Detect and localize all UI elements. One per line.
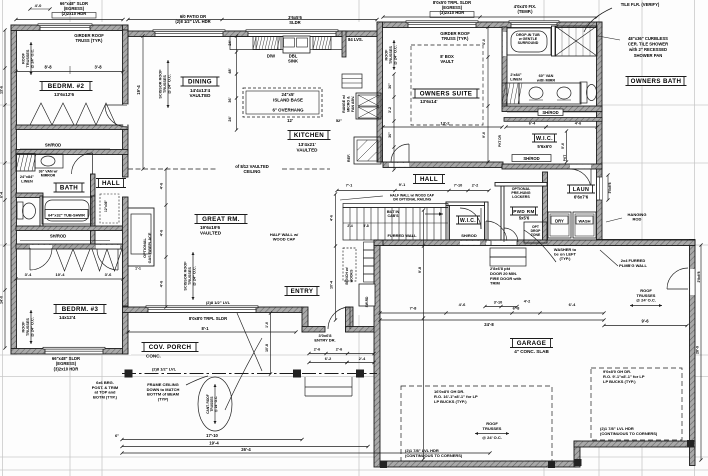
door wic1 (590, 169, 592, 190)
svg-text:2'-4: 2'-4 (359, 357, 366, 361)
garage steps (490, 248, 526, 257)
bath toilet (17, 202, 23, 219)
porch big swing (225, 338, 262, 410)
door bedroom3 (29, 248, 31, 270)
svg-text:9'-6: 9'-6 (482, 132, 486, 138)
svg-text:RANGE w/: RANGE w/ (342, 95, 346, 113)
owners suite door opening (389, 163, 409, 167)
owners suite south wall (383, 162, 503, 168)
svg-text:SH/ROD: SH/ROD (45, 143, 61, 148)
exterior wall top-middle (dining/kitchen) (128, 31, 379, 37)
bath north partial (16, 193, 43, 198)
svg-text:9'-1: 9'-1 (399, 183, 405, 187)
room label PWD RM (513, 207, 536, 215)
dryer (548, 212, 571, 238)
svg-text:SW.RD: SW.RD (365, 296, 369, 307)
dim porch 8-1 (128, 331, 296, 333)
svg-text:28'-9: 28'-9 (696, 346, 700, 354)
hall opening (96, 245, 120, 249)
dim line kitchen left (236, 36, 238, 130)
patio door 6/0 (155, 31, 223, 37)
svg-text:13'6x14': 13'6x14' (420, 99, 438, 104)
room label BATH (56, 183, 82, 192)
owners suite window 8'0x5'0 TRPL SLDR (408, 22, 476, 28)
svg-text:4'-2: 4'-2 (524, 300, 530, 304)
room label COV PORCH (144, 343, 196, 352)
garage bottom step (574, 441, 580, 467)
svg-text:(TYP.): (TYP.) (559, 256, 571, 261)
svg-text:TRIM: TRIM (490, 281, 500, 286)
dim vertical entry (335, 194, 337, 320)
pwd north wall (495, 183, 547, 187)
svg-text:@ 24' O.C.: @ 24' O.C. (482, 435, 502, 440)
tub-shower (42, 197, 92, 224)
wic south / laundry north wall (502, 164, 602, 169)
wic2 east wall (485, 202, 489, 245)
svg-text:4'-6: 4'-6 (330, 215, 334, 221)
svg-text:7'-8: 7'-8 (410, 306, 418, 311)
svg-text:FURRED WALL: FURRED WALL (387, 233, 417, 238)
washer (573, 212, 596, 238)
bedroom2 east wall (123, 30, 129, 104)
dim vertical garage left inside (423, 210, 425, 459)
svg-text:13'-6: 13'-6 (0, 86, 4, 94)
svg-text:@ 24" O.C.: @ 24" O.C. (394, 45, 398, 65)
svg-text:6'-4: 6'-4 (569, 302, 577, 307)
svg-text:SH/ROD: SH/ROD (542, 110, 558, 115)
drop-in tub (507, 28, 551, 55)
svg-text:CER. TILE SHOWER: CER. TILE SHOWER (628, 42, 668, 47)
owners suite / bath wall (502, 27, 507, 107)
door bath (92, 153, 94, 174)
trusses owners (393, 40, 395, 70)
svg-text:GARAGE: GARAGE (517, 340, 547, 347)
svg-text:PWD RM: PWD RM (513, 209, 535, 214)
svg-text:OR OPTIONAL RAILING: OR OPTIONAL RAILING (393, 197, 432, 201)
dim dining height (142, 36, 144, 169)
garage bottom wall right part (574, 441, 695, 447)
svg-text:52": 52" (336, 118, 342, 123)
hall-mud opening (460, 241, 480, 245)
great room west wall lower-run (123, 197, 129, 306)
fire door arc (503, 228, 505, 242)
svg-text:7'-1: 7'-1 (346, 184, 352, 188)
dim line hall top (337, 190, 489, 192)
dim wic vertical (566, 131, 568, 162)
svg-text:6'-2: 6'-2 (325, 357, 331, 361)
bedroom2 closet south wall (16, 150, 128, 155)
svg-text:4'-6: 4'-6 (160, 281, 164, 287)
svg-text:24"x5': 24"x5' (282, 92, 295, 97)
door wic2 (480, 208, 482, 229)
svg-text:2'x84": 2'x84" (510, 73, 521, 77)
garage corner posts (380, 461, 387, 468)
door hall-bed3 (117, 249, 119, 270)
svg-text:LAUN: LAUN (573, 187, 590, 193)
drop zone cabinet (524, 222, 547, 243)
svg-text:5'-8: 5'-8 (363, 224, 369, 228)
svg-text:CONC.: CONC. (146, 354, 161, 359)
svg-text:(3)2x10 HDR: (3)2x10 HDR (440, 10, 465, 15)
bedroom2 door opening (123, 104, 127, 126)
svg-text:TRUSSES: TRUSSES (188, 267, 192, 285)
room label DINING (183, 77, 217, 86)
dim chain above garage (380, 312, 604, 314)
svg-text:HALL: HALL (420, 176, 438, 183)
left margin dim line (4, 30, 6, 348)
svg-text:5x5'6: 5x5'6 (519, 216, 530, 221)
svg-text:TRUSS (TYP.): TRUSS (TYP.) (442, 36, 470, 41)
svg-text:3'0x6'8: 3'0x6'8 (608, 182, 612, 193)
door owners suite (408, 144, 410, 162)
bedroom3 bottom exterior wall (11, 349, 128, 355)
tub/shower divider (552, 26, 556, 56)
svg-text:@ 24" O.C.: @ 24" O.C. (214, 396, 218, 413)
room label BEDRM 2 (42, 82, 90, 91)
svg-text:TRUSSES: TRUSSES (26, 318, 30, 336)
top dim lines (16, 19, 123, 21)
svg-text:10'-4: 10'-4 (56, 272, 66, 277)
svg-text:2'8x6'8: 2'8x6'8 (697, 271, 701, 282)
porch cant trusses ellipse (198, 377, 232, 431)
svg-text:(TEMP.): (TEMP.) (517, 9, 533, 14)
wic north wall (504, 118, 602, 122)
svg-text:2'-2: 2'-2 (472, 184, 478, 188)
svg-text:DINING: DINING (188, 79, 212, 86)
right margin dim (700, 245, 702, 460)
svg-text:CEILING: CEILING (244, 169, 261, 174)
svg-text:FAN ABV.: FAN ABV. (351, 96, 355, 112)
thin wall toilet/tub (40, 196, 43, 226)
svg-text:3'-10: 3'-10 (494, 301, 503, 305)
svg-text:ROD: ROD (633, 217, 642, 222)
trusses great room (192, 252, 194, 300)
svg-text:10'-8: 10'-8 (265, 344, 269, 352)
svg-text:12': 12' (287, 118, 293, 123)
bedroom3 right wall (123, 244, 129, 354)
dim vertical porch (270, 313, 272, 374)
trusses dining (167, 60, 169, 108)
vault line great room (128, 168, 218, 170)
svg-text:W.I.C.: W.I.C. (460, 218, 476, 224)
svg-text:WASH: WASH (579, 219, 591, 224)
fireplace (128, 208, 154, 266)
svg-text:2'-6: 2'-6 (336, 348, 342, 352)
svg-text:24'-8: 24'-8 (484, 322, 494, 327)
svg-text:SHOWER PAN: SHOWER PAN (634, 53, 663, 58)
svg-text:SINK: SINK (288, 59, 298, 64)
svg-text:ROOF: ROOF (22, 321, 26, 333)
exterior wall top-right (owners suite) (377, 22, 602, 28)
owners bath pocket door (503, 32, 507, 56)
svg-text:BEDRM. #3: BEDRM. #3 (62, 306, 99, 313)
svg-text:KITCHEN: KITCHEN (294, 132, 324, 139)
svg-text:COV. PORCH: COV. PORCH (149, 344, 192, 351)
svg-text:36': 36' (228, 97, 232, 102)
wall ovens (356, 93, 381, 119)
svg-text:3'-4: 3'-4 (25, 272, 33, 277)
wic door opening (570, 165, 591, 169)
svg-text:4" CONC. SLAB: 4" CONC. SLAB (514, 349, 549, 354)
bedroom3 window 66x48 SLDR (45, 349, 103, 355)
svg-text:TRUSSES: TRUSSES (26, 49, 30, 67)
entry door jamb pillar (346, 307, 354, 332)
hall linen dashed (100, 194, 119, 223)
svg-text:84 LVS.: 84 LVS. (348, 37, 363, 42)
entry south wall west (302, 327, 325, 333)
svg-text:6'-4: 6'-4 (0, 192, 4, 198)
svg-text:GAS FIREPLACE: GAS FIREPLACE (148, 232, 152, 263)
dim line owners west (393, 74, 395, 170)
svg-text:ISLAND BASE: ISLAND BASE (273, 97, 303, 102)
room label WIC owners (535, 134, 555, 142)
svg-text:3'-6: 3'-6 (105, 272, 113, 277)
bedroom3 closet bifold left (56, 249, 90, 271)
svg-text:5'-6: 5'-6 (561, 143, 565, 149)
svg-text:26'-4: 26'-4 (241, 447, 251, 452)
svg-text:SCISSOR ROOF: SCISSOR ROOF (159, 69, 163, 99)
svg-text:12"x36": 12"x36" (104, 200, 108, 212)
svg-text:@ 24" O.C.: @ 24" O.C. (31, 317, 35, 337)
svg-text:9'-8: 9'-8 (418, 267, 422, 273)
bath linen hatched (16, 154, 35, 172)
svg-text:6'-4: 6'-4 (529, 122, 536, 126)
porch posts (125, 370, 133, 378)
exterior wall garage right (690, 240, 696, 466)
svg-text:BENCH w/: BENCH w/ (345, 267, 349, 284)
wic rods (512, 155, 551, 162)
trusses bedroom3 (30, 310, 32, 344)
window bedroom2 66x48 SLDR (40, 25, 90, 31)
svg-text:19'6x19'6: 19'6x19'6 (200, 225, 221, 230)
svg-text:with 2" RECESSED: with 2" RECESSED (628, 47, 667, 52)
exterior wall left (11, 25, 17, 354)
svg-text:W.I.C.: W.I.C. (536, 136, 553, 142)
entry closet (359, 284, 375, 306)
trusses bedroom2 (30, 42, 32, 75)
room label OWNERS SUITE (415, 89, 477, 98)
wall laundry to garage right (597, 240, 695, 246)
entry south wall east (346, 327, 375, 333)
svg-text:VAULTED: VAULTED (200, 231, 222, 236)
hall/closet wall (91, 196, 96, 244)
svg-text:LINEN: LINEN (21, 179, 33, 183)
svg-text:SH/ROD: SH/ROD (523, 156, 539, 161)
svg-text:CAB'S: CAB'S (387, 214, 399, 218)
laundry exterior door gap (597, 177, 602, 200)
owners box vault dashed (411, 45, 483, 125)
svg-text:24"x84": 24"x84" (20, 175, 34, 179)
svg-text:TRUSS (TYP.): TRUSS (TYP.) (76, 38, 104, 43)
garage OH door dashed left (401, 386, 552, 461)
svg-text:(2)2x10 HDR: (2)2x10 HDR (62, 11, 87, 16)
svg-text:14'-0: 14'-0 (0, 296, 4, 304)
svg-text:BOTM (TYP.): BOTM (TYP.) (93, 394, 118, 399)
svg-text:LINEN: LINEN (510, 77, 522, 81)
svg-text:D/W: D/W (267, 54, 275, 59)
svg-text:6": 6" (115, 433, 119, 438)
svg-text:48"x36" CURBLESS: 48"x36" CURBLESS (628, 36, 668, 41)
svg-text:HALL: HALL (102, 180, 120, 187)
svg-text:36": 36" (388, 132, 392, 138)
svg-text:8'-8: 8'-8 (44, 65, 52, 70)
stairs (343, 208, 448, 241)
door bedroom2 (105, 104, 127, 106)
svg-text:19'-4: 19'-4 (136, 85, 141, 95)
hall east wall piece (123, 126, 129, 177)
svg-text:36": 36" (388, 83, 392, 89)
laundry west wall (543, 172, 548, 244)
room label GARAGE (513, 339, 551, 348)
svg-text:2'-6: 2'-6 (314, 348, 320, 352)
svg-text:8'-1: 8'-1 (201, 326, 209, 331)
dbl sink (283, 36, 310, 53)
svg-text:TILE FLR. (VERIFY): TILE FLR. (VERIFY) (621, 2, 660, 7)
garage left wall (374, 240, 380, 467)
dim bedroom3 top (16, 278, 123, 280)
svg-text:48': 48' (228, 68, 232, 73)
svg-text:13'4x21': 13'4x21' (298, 142, 316, 147)
svg-text:OWNERS SUITE: OWNERS SUITE (420, 91, 473, 98)
svg-text:3'-8: 3'-8 (94, 65, 102, 70)
svg-text:4'-6: 4'-6 (575, 122, 581, 126)
svg-text:VAULTED: VAULTED (296, 148, 318, 153)
svg-text:@ 24" O.C.: @ 24" O.C. (193, 266, 197, 286)
porch beam line (122, 373, 377, 375)
svg-text:3'-2: 3'-2 (388, 107, 392, 113)
svg-text:ENTRY DR.: ENTRY DR. (314, 338, 335, 343)
svg-text:6" OVERHANG: 6" OVERHANG (272, 108, 304, 113)
svg-text:(TYP): (TYP) (158, 396, 169, 401)
pwd door opening (486, 241, 507, 245)
room label OWNERS BATH (628, 77, 684, 86)
owners toilet (580, 82, 587, 103)
great room south wall (porch) (123, 307, 303, 313)
svg-text:BATH: BATH (60, 185, 78, 192)
svg-text:ROOF: ROOF (22, 52, 26, 64)
hall south wall (383, 240, 695, 246)
svg-text:5'6x6'0: 5'6x6'0 (537, 144, 552, 149)
kitchen counter (230, 37, 343, 50)
svg-text:(2)8 1/2" LVL: (2)8 1/2" LVL (206, 300, 231, 305)
dishwasher (256, 37, 278, 50)
bench w hooks (343, 248, 356, 281)
svg-text:14x12'4: 14x12'4 (59, 315, 76, 320)
svg-text:13'-2: 13'-2 (441, 121, 451, 126)
great room window 8'0x8'0 TRPL SLDR (148, 307, 256, 313)
svg-text:10'-4: 10'-4 (330, 281, 334, 289)
svg-text:TRUSSES: TRUSSES (389, 46, 393, 64)
room label KITCHEN (290, 131, 328, 140)
linen hatched (502, 83, 519, 104)
bath/hall wall upper (91, 174, 96, 196)
svg-text:SH/ROD: SH/ROD (50, 234, 66, 239)
room label GREAT RM (197, 215, 245, 224)
svg-text:24': 24' (228, 116, 232, 121)
svg-text:GREAT RM.: GREAT RM. (202, 216, 240, 223)
dim great room left (165, 169, 167, 307)
svg-text:PKT DR: PKT DR (498, 134, 502, 147)
svg-text:2'-4: 2'-4 (347, 224, 353, 228)
door garage service (667, 288, 688, 290)
svg-text:VAULT: VAULT (440, 59, 454, 64)
bottom dim chains (122, 439, 302, 441)
svg-text:1'-1: 1'-1 (135, 267, 141, 271)
svg-text:60" VAN: 60" VAN (539, 74, 554, 78)
garage service door opening (690, 269, 695, 295)
svg-text:8'0x8'0 TRPL SLDR: 8'0x8'0 TRPL SLDR (189, 316, 227, 321)
half wall (343, 204, 448, 208)
fridge (354, 137, 381, 164)
svg-text:ENTRY: ENTRY (291, 288, 314, 295)
pwd west wall (501, 186, 504, 244)
svg-text:VAULTED: VAULTED (189, 93, 211, 98)
svg-text:1'-6: 1'-6 (265, 322, 269, 328)
owners suite west wall (377, 22, 383, 162)
svg-text:OWNERS BATH: OWNERS BATH (631, 78, 682, 85)
svg-text:TRUSSES: TRUSSES (163, 75, 167, 93)
dims entry (309, 353, 374, 355)
wic2 north wall (446, 202, 488, 206)
svg-text:MIRROR: MIRROR (41, 174, 56, 178)
exterior wall top-left (bedroom 2) (11, 25, 128, 31)
bedroom3 closet bifold right (92, 249, 122, 271)
garage bottom wall left part (380, 461, 576, 467)
bedroom2 closet north wall (16, 125, 128, 130)
svg-text:(CONTINUOUS TO CORNERS): (CONTINUOUS TO CORNERS) (405, 453, 463, 458)
bedroom3 closet north wall (16, 226, 128, 231)
svg-text:24': 24' (228, 40, 232, 45)
kitchen window 3'6x5'6 SLDR (248, 31, 336, 37)
door pwd (485, 221, 487, 243)
svg-text:ROOF: ROOF (385, 49, 389, 61)
svg-text:9'-6: 9'-6 (641, 319, 649, 324)
room label BEDRM 3 (56, 305, 104, 314)
wic2 west wall (446, 202, 450, 245)
svg-text:7'-10: 7'-10 (454, 184, 463, 188)
svg-text:LP BUCKS (TYP.): LP BUCKS (TYP.) (603, 379, 636, 384)
svg-text:(3)2x10 HDR: (3)2x10 HDR (54, 366, 79, 371)
exterior wall right upper block (597, 22, 603, 245)
svg-text:WOOD CAP: WOOD CAP (273, 237, 296, 242)
vanity south wall (502, 106, 602, 112)
svg-text:BEDRM. #2: BEDRM. #2 (48, 83, 85, 90)
svg-text:(CONTINUOUS TO CORNERS): (CONTINUOUS TO CORNERS) (600, 431, 658, 436)
curbless shower (555, 26, 597, 56)
house/garage separating wall (374, 240, 695, 246)
bedroom3 door opening (30, 245, 52, 249)
svg-text:REF.: REF. (347, 154, 351, 162)
svg-text:SURROUND: SURROUND (518, 41, 539, 45)
svg-text:@ 24" O.C.: @ 24" O.C. (168, 74, 172, 94)
fire door opening (491, 241, 517, 245)
dim owners suite right (487, 27, 489, 162)
dims owners suite (383, 126, 502, 128)
svg-text:@ 24' O.C.: @ 24' O.C. (636, 298, 656, 303)
island (243, 88, 322, 117)
svg-text:SH/ROD: SH/ROD (461, 233, 477, 238)
svg-text:SLDR: SLDR (289, 20, 300, 25)
svg-text:SCISSOR ROOF: SCISSOR ROOF (184, 261, 188, 291)
svg-text:DRY: DRY (555, 219, 564, 224)
svg-text:PLMB'G WALL: PLMB'G WALL (619, 263, 647, 268)
svg-text:6'6x7'6: 6'6x7'6 (574, 195, 589, 200)
right margin dims (607, 175, 609, 200)
bedroom2 closet bifold right (76, 103, 116, 125)
svg-text:4'-0: 4'-0 (35, 3, 43, 8)
lockers (364, 242, 375, 250)
svg-text:64"x32" TUB-SHWR: 64"x32" TUB-SHWR (48, 213, 85, 218)
